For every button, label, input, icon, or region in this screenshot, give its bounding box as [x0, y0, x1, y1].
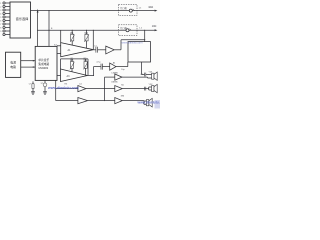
speaker YD1: [149, 72, 158, 81]
wire supply A: [21, 60, 36, 62]
label R1: [71, 58, 75, 60]
wire feedback left A1: [60, 30, 62, 42]
wire A3 out: [88, 67, 101, 76]
pot W1: [70, 30, 75, 45]
wire U4 to speaker YD1: [142, 62, 145, 75]
terminal J3: [0, 9, 10, 12]
terminal J5: [0, 16, 10, 19]
svg-text:C7: C7: [29, 84, 31, 86]
dashed remote box 2: [119, 25, 138, 36]
pushbutton SB2: [126, 28, 142, 32]
capacitor C5: [140, 73, 145, 77]
svg-text:4: 4: [0, 14, 1, 16]
svg-text:7: 7: [0, 24, 1, 26]
op-amp A1: [61, 43, 94, 57]
ground G2: [43, 92, 47, 94]
wire B2 out: [88, 100, 115, 102]
svg-text:1.5: 1.5: [139, 28, 142, 30]
svg-text:10Ω: 10Ω: [148, 5, 153, 9]
ground G1: [31, 92, 35, 94]
wire segment after SB2: [129, 29, 155, 31]
wire A4 out to U4: [116, 62, 128, 71]
wire rail to U4: [144, 30, 145, 42]
svg-text:集成电路: 集成电路: [38, 62, 49, 66]
amp N2: [111, 82, 124, 92]
capacitor C6: [145, 87, 146, 91]
svg-text:UM3482: UM3482: [38, 66, 48, 70]
svg-text:3: 3: [0, 10, 1, 12]
wire A2 out up: [114, 39, 145, 50]
op-amp A2: [106, 46, 114, 54]
wire to B1 buffer: [56, 88, 78, 90]
block U1 music select: [10, 2, 31, 38]
svg-text:LM386: LM386: [111, 82, 118, 84]
terminal J10: [3, 33, 10, 35]
dashed remote box 1: [119, 5, 138, 16]
wire A1 out: [93, 49, 96, 51]
crystal B1 under U2: [41, 80, 47, 91]
svg-text:9: 9: [0, 31, 1, 33]
svg-text:5: 5: [0, 17, 1, 19]
wire N2 to YD2: [122, 87, 151, 90]
svg-text:www.dianlutu.com: www.dianlutu.com: [47, 86, 79, 90]
capacitor C2: [96, 62, 102, 70]
watermark www.dianlutu.com main: [47, 86, 79, 90]
wire U2 to A3: [57, 75, 61, 77]
terminal J7: [0, 23, 10, 26]
wire W-top supply rail: [31, 10, 130, 12]
wire C2 to A4: [103, 66, 110, 68]
wire V2: [48, 10, 49, 46]
wire U2 bottom bus: [55, 80, 56, 100]
svg-text:2: 2: [0, 7, 1, 9]
wire to B2 buffer: [56, 100, 78, 102]
buffer B2: [78, 98, 88, 104]
buffer B1: [78, 86, 86, 92]
block U4 selector box: [128, 42, 151, 62]
svg-text:单片音乐: 单片音乐: [38, 58, 49, 62]
label C4: [79, 84, 83, 86]
watermark www.dianlutu.com small: [122, 40, 143, 44]
amp N1: [112, 72, 122, 80]
terminal J6: [0, 19, 10, 22]
wire V1 with arrow to rail: [37, 9, 39, 47]
arrow out top: [148, 5, 157, 12]
wire C5 to YD1: [146, 74, 152, 76]
wire N3 to YD3: [122, 101, 146, 105]
wire supply B: [21, 66, 36, 68]
svg-text:1.5: 1.5: [139, 8, 142, 10]
svg-text:10μ: 10μ: [121, 69, 124, 71]
terminal J8: [0, 26, 10, 29]
capacitor C1: [94, 45, 98, 52]
svg-text:1: 1: [0, 3, 1, 5]
terminal J2: [0, 5, 10, 8]
pot W3: [70, 58, 75, 71]
watermark bottom right: [137, 100, 167, 109]
terminal J4: [0, 12, 10, 15]
wire U2 to A1: [57, 46, 61, 54]
op-amp A4: [110, 61, 116, 70]
pushbutton SB1: [129, 8, 141, 13]
block U3 power supply: [6, 52, 21, 77]
label R3: [65, 84, 69, 86]
op-amp A3: [61, 69, 88, 82]
speaker YD3: [146, 98, 152, 107]
svg-text:电路: 电路: [10, 64, 16, 69]
svg-text:6: 6: [0, 21, 1, 23]
arrow out mid: [152, 25, 158, 31]
wire segment after SB1: [132, 10, 155, 12]
amp N3: [115, 95, 125, 103]
wire B1 out: [86, 88, 115, 90]
label R2: [84, 58, 88, 60]
wire feedback top A3: [61, 59, 89, 76]
svg-text:www.dianlutu.com: www.dianlutu.com: [122, 40, 143, 44]
block U2 melody IC: [35, 44, 58, 80]
wire W2 mid rail: [37, 28, 126, 31]
svg-text:8: 8: [0, 28, 1, 30]
speaker YD2: [149, 84, 158, 93]
terminal J1: [0, 2, 10, 5]
terminal J9: [0, 30, 10, 33]
pot W4: [84, 58, 89, 75]
wire N1 to YD1: [122, 76, 152, 79]
wire branch bus: [104, 77, 115, 101]
wire C1 to A2: [98, 49, 106, 51]
resistor R5 under U2: [29, 81, 34, 91]
pot W2: [84, 30, 89, 48]
svg-text:10Ω: 10Ω: [152, 25, 157, 28]
svg-text:音乐选择: 音乐选择: [16, 16, 29, 21]
wire feedback right A1: [93, 30, 94, 50]
